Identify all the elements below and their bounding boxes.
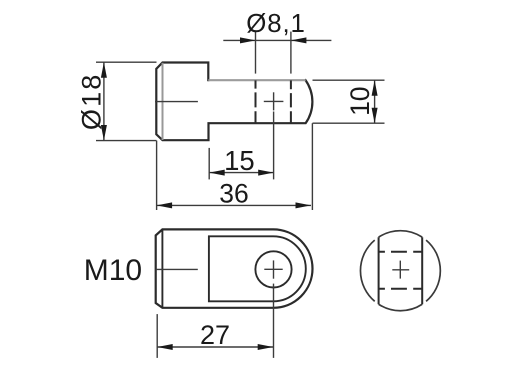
svg-text:10: 10 — [345, 86, 375, 115]
plan view chamfer line — [161, 230, 163, 308]
dimension 15 — [209, 112, 274, 180]
plan view outline (stadium with chamfered left end) — [156, 229, 313, 307]
svg-text:Ø8,1: Ø8,1 — [246, 10, 306, 38]
hole center cross (plan view) — [264, 260, 282, 278]
end view center cross — [392, 261, 409, 279]
dimension 27 — [157, 284, 273, 358]
svg-text:Ø18: Ø18 — [77, 72, 107, 130]
top view centerline / thread leader — [155, 101, 198, 103]
svg-text:M10: M10 — [84, 254, 142, 287]
plan view inner contour (tab boundary) — [209, 236, 306, 301]
hole circle (plan view) — [255, 251, 291, 287]
svg-text:15: 15 — [224, 145, 255, 176]
end view circle (Ø18 head seen from right, four arc segments) — [360, 231, 440, 311]
dimension 10 — [313, 80, 385, 123]
svg-text:27: 27 — [200, 320, 230, 350]
dimension Ø8,1 — [223, 32, 331, 74]
hidden hole line right (top view) — [290, 80, 292, 123]
hidden hole line left (top view) — [255, 80, 257, 123]
dimension Ø18 — [96, 62, 157, 140]
top view tab top edge (light line) — [208, 79, 305, 81]
svg-text:36: 36 — [219, 179, 248, 209]
top view chamfer line — [162, 63, 164, 140]
end view tab flats (vertical chords) — [379, 237, 423, 304]
top view outline (head + tab side elevation) — [156, 63, 312, 141]
dimension 36 — [157, 123, 313, 210]
hole center cross (top view) — [264, 92, 284, 110]
end view hidden hole lines (dashed) — [379, 252, 423, 289]
